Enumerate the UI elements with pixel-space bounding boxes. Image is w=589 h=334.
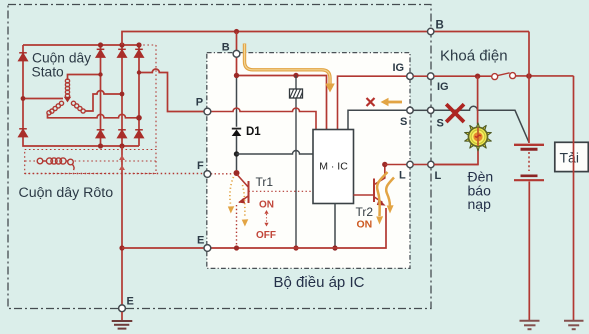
svg-text:F: F <box>197 160 204 172</box>
svg-text:L: L <box>435 170 442 182</box>
svg-text:Tr2: Tr2 <box>356 205 374 219</box>
svg-text:ON: ON <box>259 200 274 211</box>
svg-text:E: E <box>127 295 134 307</box>
svg-text:B: B <box>436 20 444 32</box>
svg-text:Cuộn dây Rôto: Cuộn dây Rôto <box>19 185 114 201</box>
svg-text:L: L <box>399 170 406 182</box>
svg-text:OFF: OFF <box>256 230 276 241</box>
svg-text:M · IC: M · IC <box>319 161 348 173</box>
svg-text:Cuộn dây: Cuộn dây <box>32 51 91 66</box>
svg-text:Bộ điều áp IC: Bộ điều áp IC <box>274 274 365 291</box>
svg-text:P: P <box>196 97 203 109</box>
svg-text:S: S <box>437 118 444 130</box>
svg-text:Tr1: Tr1 <box>256 175 274 189</box>
svg-text:nạp: nạp <box>468 196 492 212</box>
svg-text:IG: IG <box>393 62 405 74</box>
svg-text:Tải: Tải <box>560 150 579 166</box>
svg-text:D1: D1 <box>246 126 261 138</box>
svg-text:B: B <box>222 41 230 53</box>
svg-text:Stato: Stato <box>32 64 65 79</box>
svg-text:E: E <box>197 234 204 246</box>
svg-text:ON: ON <box>357 219 373 231</box>
svg-text:S: S <box>400 116 407 128</box>
svg-text:IG: IG <box>437 81 449 93</box>
svg-text:Khoá điện: Khoá điện <box>440 48 508 65</box>
